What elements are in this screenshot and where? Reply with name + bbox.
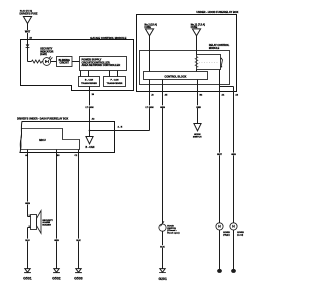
svg-text:GAUGE CONTROL MODULE: GAUGE CONTROL MODULE [90, 36, 126, 40]
svg-text:MICU: MICU [39, 139, 46, 142]
svg-text:G502: G502 [52, 277, 61, 281]
svg-text:G201: G201 [158, 277, 167, 281]
svg-text:WHT: WHT [25, 32, 31, 34]
svg-text:G503: G503 [74, 277, 83, 281]
svg-text:DRIVER'S UNDER - DASH FUSE/REL: DRIVER'S UNDER - DASH FUSE/RELAY BOX [17, 117, 69, 120]
svg-text:(Low): (Low) [237, 235, 243, 237]
svg-text:WHT: WHT [217, 154, 222, 156]
svg-text:F - CAN: F - CAN [110, 79, 118, 82]
svg-text:MODULE: MODULE [209, 47, 220, 50]
svg-text:2: 2 [29, 226, 30, 228]
svg-text:2 - E: 2 - E [118, 127, 123, 129]
svg-text:BLINKING: BLINKING [59, 60, 70, 62]
svg-text:BLK: BLK [160, 247, 165, 249]
svg-text:SWITCH: SWITCH [193, 137, 202, 139]
svg-text:TRANSCEIVER: TRANSCEIVER [107, 82, 123, 85]
svg-text:TRANSCEIVER: TRANSCEIVER [81, 82, 97, 85]
svg-text:GRN: GRN [54, 240, 59, 242]
svg-text:LT GRN: LT GRN [146, 107, 154, 109]
svg-text:DRIVER'S FUSE: DRIVER'S FUSE [20, 12, 38, 16]
svg-text:B - CAN: B - CAN [85, 79, 94, 82]
svg-text:CONTROL BLOCK: CONTROL BLOCK [165, 75, 187, 78]
svg-text:UNDER - HOOD FUSE/RELAY BOX: UNDER - HOOD FUSE/RELAY BOX [196, 10, 238, 14]
svg-text:BUZZER: BUZZER [42, 225, 51, 227]
svg-text:GRN: GRN [160, 107, 165, 109]
svg-text:RED: RED [196, 107, 201, 109]
svg-text:LT GRN: LT GRN [86, 107, 94, 109]
svg-text:B - CAN: B - CAN [86, 146, 95, 149]
svg-text:CIRCUIT: CIRCUIT [60, 63, 70, 65]
svg-text:G501: G501 [23, 277, 32, 281]
svg-text:(LED): (LED) [40, 53, 47, 56]
svg-text:BLU: BLU [25, 240, 30, 242]
svg-text:AREA NETWORK CONTROLLER: AREA NETWORK CONTROLLER [82, 64, 121, 67]
svg-text:GRN: GRN [25, 203, 30, 205]
svg-text:(High): (High) [223, 235, 230, 237]
svg-text:Hood open): Hood open) [167, 233, 179, 235]
svg-text:BLK: BLK [76, 240, 81, 242]
svg-text:1: 1 [29, 215, 30, 217]
svg-text:GRN: GRN [231, 154, 236, 156]
